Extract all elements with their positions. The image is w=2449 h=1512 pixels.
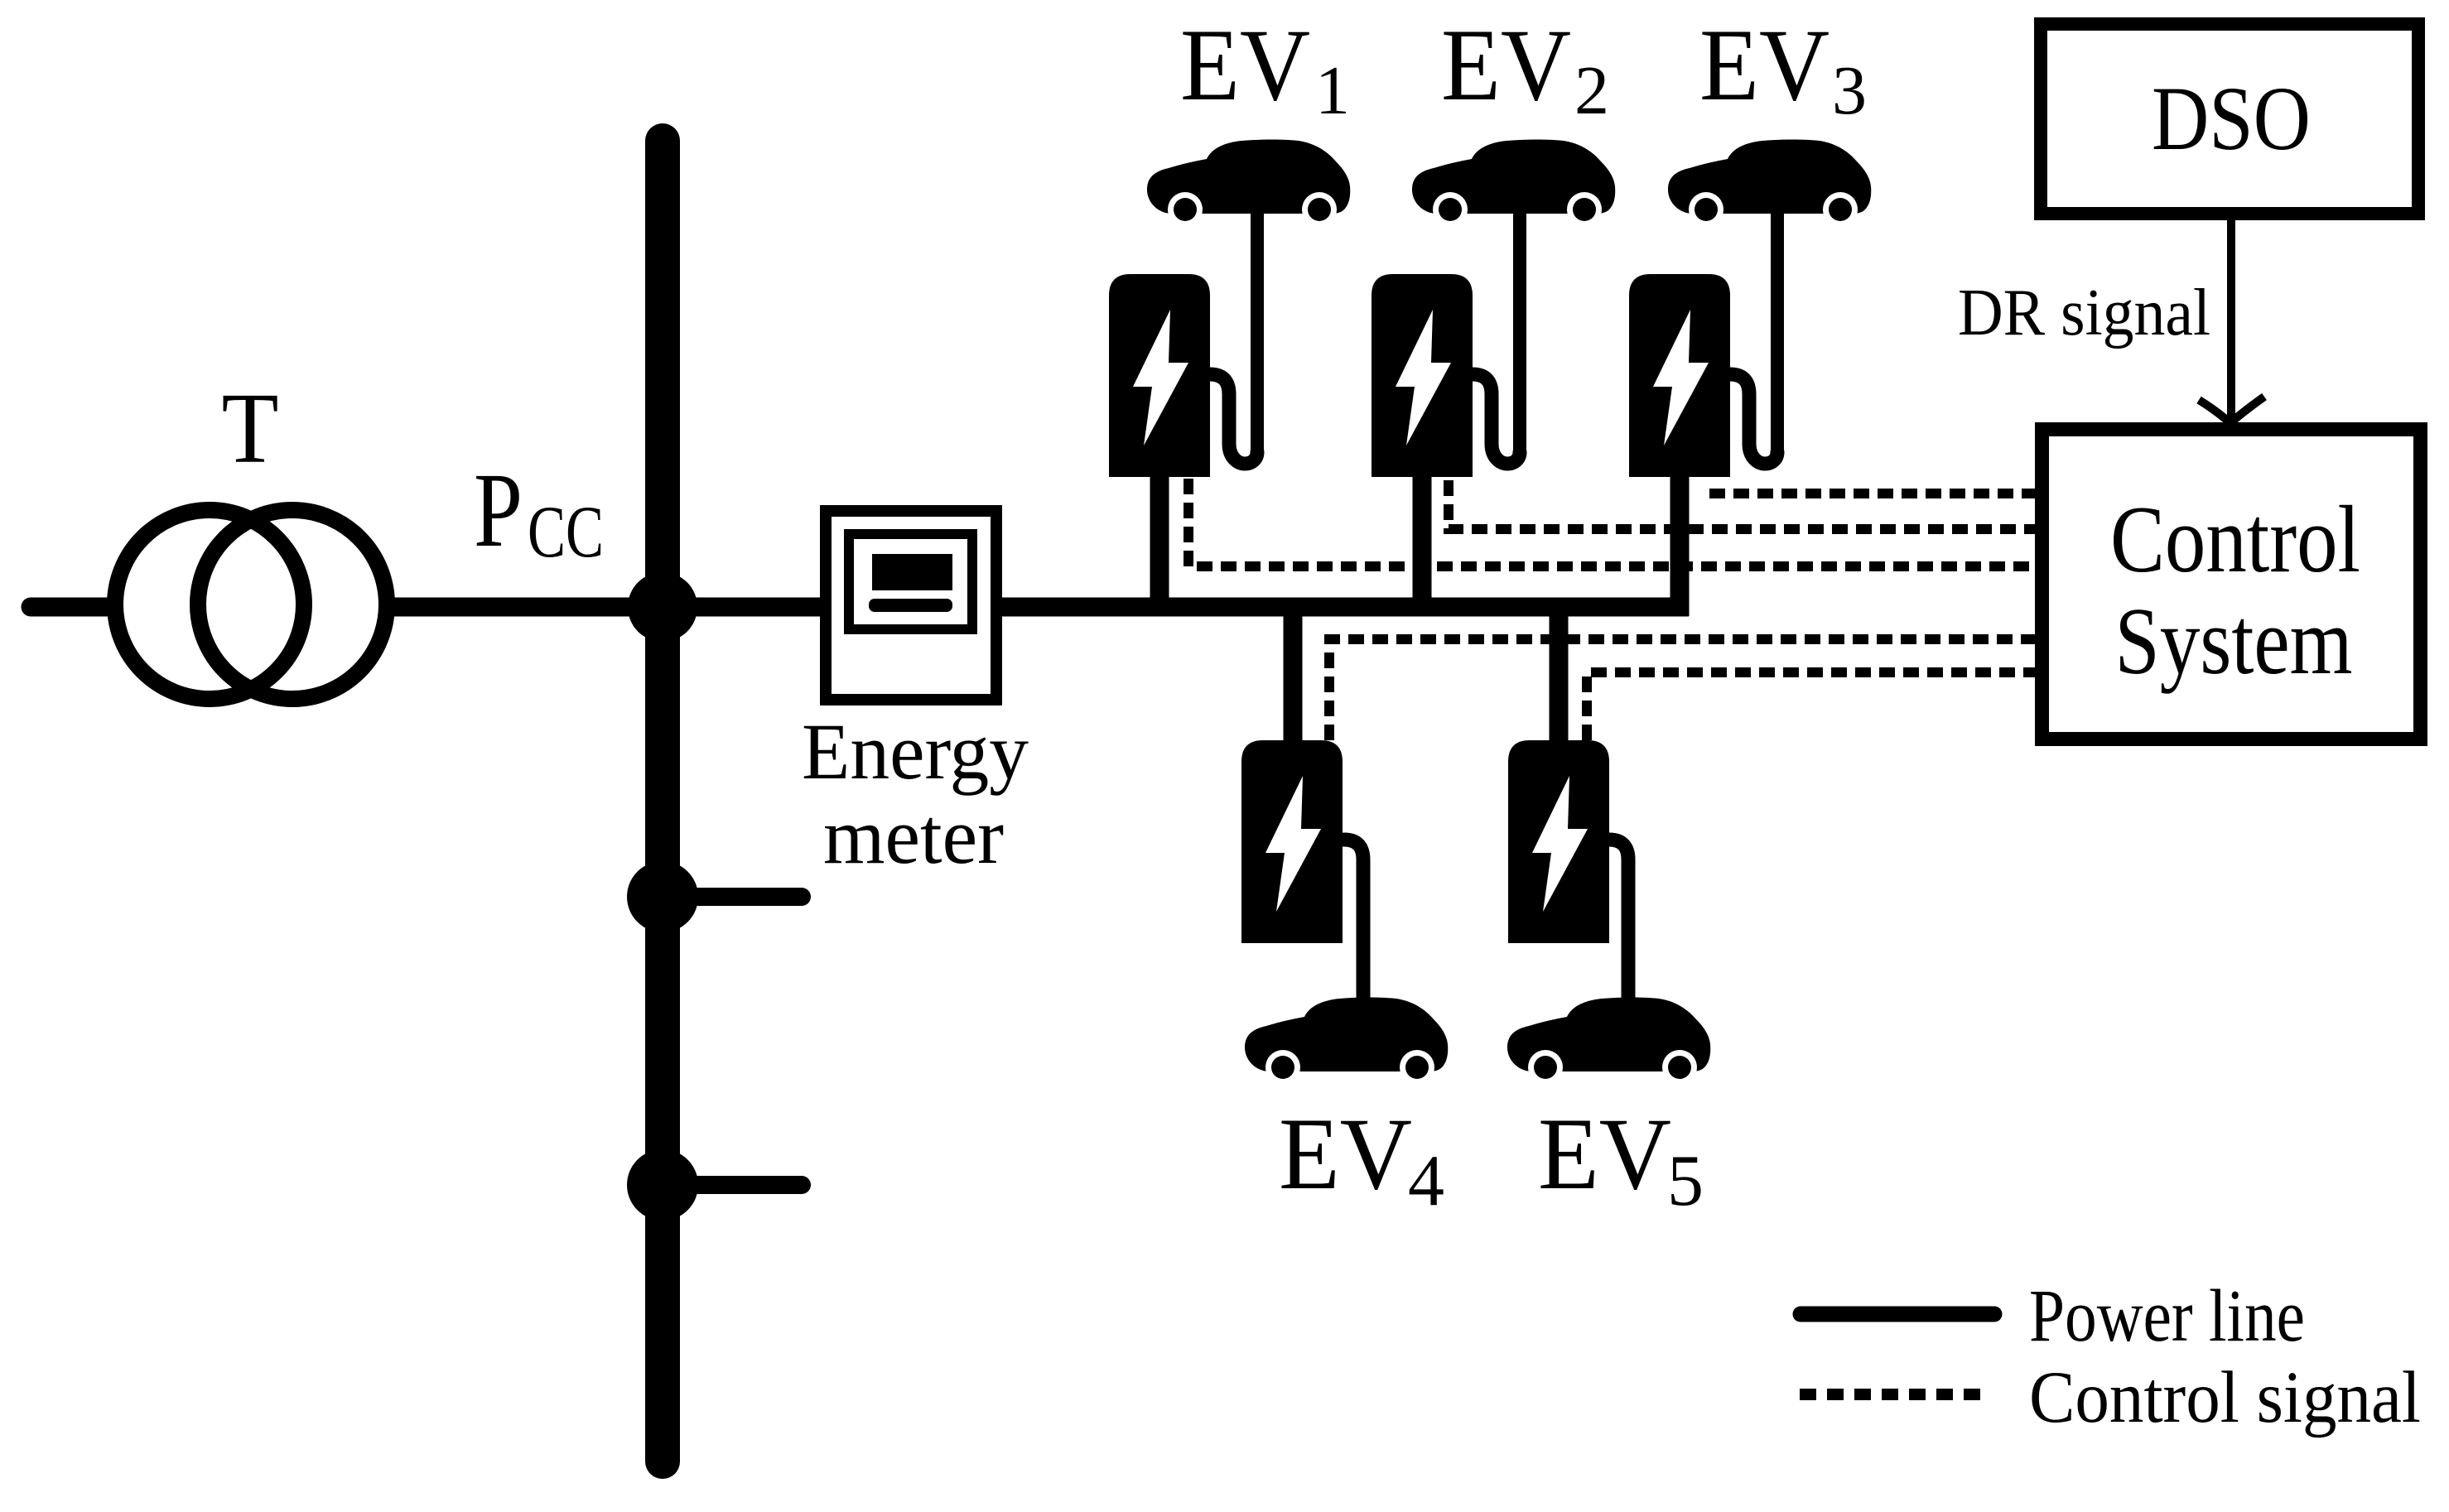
svg-text:EV: EV xyxy=(1538,1097,1671,1211)
svg-text:4: 4 xyxy=(1408,1141,1444,1221)
svg-text:EV: EV xyxy=(1441,8,1571,122)
svg-text:DSO: DSO xyxy=(2152,68,2311,169)
svg-text:meter: meter xyxy=(823,792,1004,880)
svg-text:System: System xyxy=(2115,589,2353,695)
svg-text:T: T xyxy=(222,373,279,484)
svg-text:EV: EV xyxy=(1699,8,1830,122)
svg-text:Energy: Energy xyxy=(802,707,1029,796)
svg-text:CC: CC xyxy=(528,492,604,573)
svg-text:1: 1 xyxy=(1315,52,1350,129)
svg-text:Control signal: Control signal xyxy=(2029,1357,2421,1438)
svg-text:3: 3 xyxy=(1832,52,1867,129)
svg-text:5: 5 xyxy=(1667,1141,1704,1221)
svg-text:EV: EV xyxy=(1180,8,1310,122)
svg-text:Power line: Power line xyxy=(2029,1275,2305,1357)
svg-text:P: P xyxy=(474,451,523,569)
svg-text:EV: EV xyxy=(1279,1097,1412,1211)
svg-text:2: 2 xyxy=(1574,52,1609,129)
svg-text:Control: Control xyxy=(2110,487,2360,593)
svg-text:DR signal: DR signal xyxy=(1958,277,2210,349)
